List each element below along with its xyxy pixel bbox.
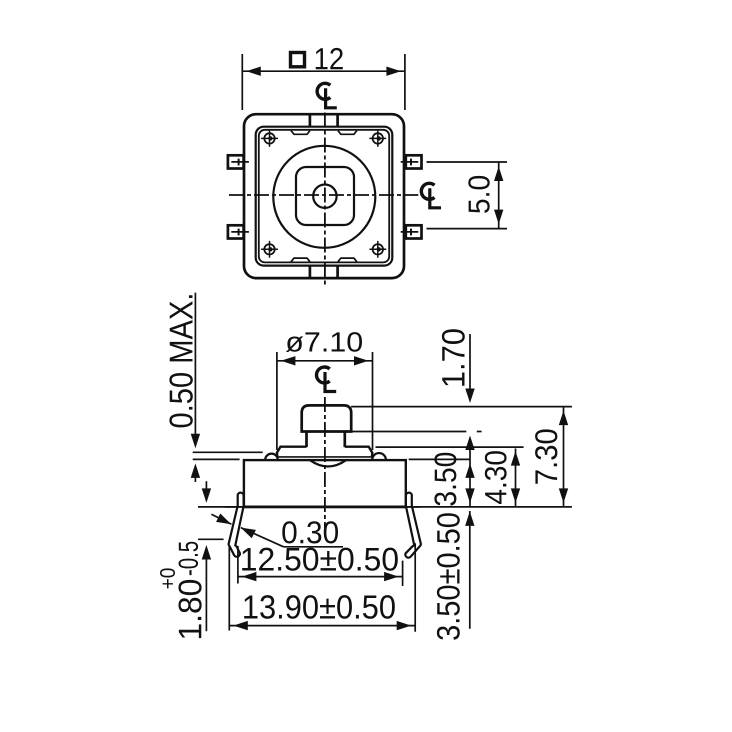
leader 0.30 (leg thickness) [211, 514, 343, 547]
top tab [309, 114, 312, 126]
dimension 7.30 [535, 407, 568, 507]
top dip arc [310, 460, 346, 466]
dimension "sq 12" top [242, 48, 405, 110]
dimension 1.80 +0/-0.5 [160, 481, 211, 638]
bump top ext (left) [193, 451, 263, 453]
pin top-left [228, 155, 249, 168]
dimension "dia 7.10" [277, 332, 373, 450]
dimension "5.0" right of top view [427, 162, 508, 229]
stem top line [351, 406, 572, 408]
horizontal centerline (top view) [229, 194, 418, 196]
button circle [273, 146, 375, 248]
left leg [229, 493, 244, 557]
corner target BL [261, 241, 278, 258]
dimension 4.30 [485, 449, 520, 507]
pin bottom-right [401, 225, 422, 238]
switch body outline (top view) [244, 114, 404, 278]
dimension 0.50 MAX. [169, 293, 200, 482]
contact dips bottom [291, 258, 310, 262]
actuator rounded square [296, 167, 354, 225]
dimension 1.70 [442, 329, 475, 506]
button stem cap [302, 405, 352, 431]
flange bump left [265, 454, 278, 460]
pin top-right [401, 155, 422, 168]
dimension 12.50+-0.50 [238, 546, 403, 586]
switch body (side view) [244, 460, 406, 507]
vertical centerline (side view) [324, 397, 326, 528]
contact dips top [291, 131, 310, 135]
centerline symbol middle [317, 367, 337, 392]
right leg [405, 493, 421, 558]
bottom tab [309, 266, 312, 278]
flange top ext [376, 446, 524, 448]
body top ext right [409, 458, 471, 460]
centerline symbol top [317, 83, 337, 108]
stem neck [305, 432, 308, 448]
pin bottom-left [228, 225, 249, 238]
center hole circle [313, 185, 336, 208]
dimension 3.50+-0.50 [437, 511, 475, 640]
dimension 3.50 (body height) [434, 453, 474, 506]
corner target TL [261, 130, 278, 147]
body bottom line over legs [244, 506, 406, 509]
vertical centerline (top view) [324, 113, 326, 287]
body top ext left [193, 458, 240, 460]
corner target TR [369, 130, 386, 147]
body bottom ext [198, 506, 244, 508]
corner target BR [369, 241, 386, 258]
leg seat tick left [198, 538, 224, 540]
centerline symbol right [421, 183, 441, 208]
cover flange [277, 447, 307, 458]
dimension 13.90+-0.50 [229, 543, 415, 632]
flange bump right [372, 453, 386, 460]
cover plate inner frame [256, 127, 393, 266]
cap bottom ext [351, 431, 466, 433]
